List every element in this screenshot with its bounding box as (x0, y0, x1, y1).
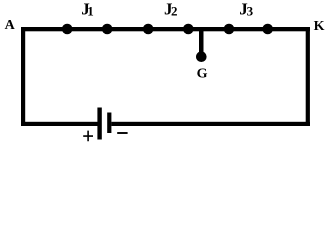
wire stub to G (199, 29, 204, 57)
junction dot 6 (262, 24, 273, 35)
wire top A to K (21, 27, 310, 31)
wire bottom left to battery (21, 122, 98, 126)
junction dot 5 (224, 24, 235, 35)
junction dot 4 (183, 24, 194, 35)
junction dot 2 (102, 24, 113, 35)
wire left side (21, 27, 25, 126)
svg-text:K: K (314, 19, 325, 34)
battery BT1 negative plate (107, 113, 111, 134)
svg-text:2: 2 (171, 4, 178, 19)
svg-text:G: G (197, 66, 208, 81)
battery minus sign (117, 132, 127, 134)
battery plus sign (83, 131, 93, 142)
junction dot 3 (143, 24, 154, 35)
node G terminal dot (196, 51, 207, 62)
battery BT1 positive plate (97, 108, 101, 140)
svg-text:A: A (5, 18, 16, 33)
svg-text:3: 3 (247, 4, 254, 19)
wire right side (306, 27, 310, 126)
junction dot 1 (62, 24, 73, 35)
wire bottom battery to right (111, 122, 310, 126)
svg-text:1: 1 (87, 4, 94, 19)
